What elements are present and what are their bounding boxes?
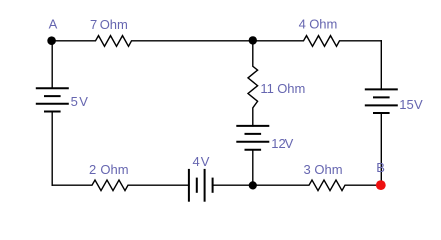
svg-text:Ohm: Ohm	[100, 162, 128, 177]
svg-text:A: A	[49, 17, 58, 32]
svg-text:2: 2	[89, 162, 96, 177]
svg-text:Ohm: Ohm	[309, 16, 337, 31]
svg-text:3: 3	[304, 162, 311, 177]
svg-text:Ohm: Ohm	[314, 162, 342, 177]
svg-text:4: 4	[193, 154, 200, 169]
svg-text:V: V	[285, 136, 294, 151]
svg-text:15: 15	[399, 97, 413, 112]
svg-text:V: V	[201, 154, 210, 169]
svg-text:5: 5	[71, 94, 78, 109]
svg-text:7: 7	[90, 17, 97, 32]
svg-text:4: 4	[299, 16, 306, 31]
svg-text:V: V	[414, 97, 423, 112]
svg-text:V: V	[79, 94, 88, 109]
svg-text:Ohm: Ohm	[100, 17, 128, 32]
svg-text:11: 11	[260, 81, 274, 96]
svg-text:Ohm: Ohm	[277, 81, 305, 96]
svg-text:12: 12	[271, 136, 285, 151]
svg-text:B: B	[376, 160, 385, 175]
